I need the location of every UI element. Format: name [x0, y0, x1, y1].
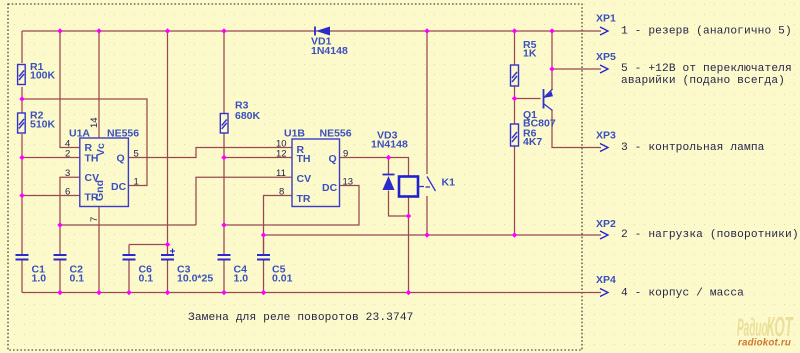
- relay K1 contact: [419, 177, 436, 192]
- watermark radiokot: [737, 310, 794, 348]
- svg-text:0.01: 0.01: [272, 273, 293, 285]
- svg-text:NE556: NE556: [320, 128, 352, 140]
- wire C2 lower: [59, 225, 61, 254]
- capacitor C5: [257, 255, 270, 260]
- pin numbers U1B: [276, 139, 353, 198]
- svg-text:6: 6: [65, 187, 70, 198]
- wire ground bus XP4: [22, 292, 601, 294]
- wire U1B TR stub: [264, 196, 293, 255]
- svg-text:7: 7: [89, 217, 100, 222]
- svg-text:Q: Q: [117, 153, 125, 165]
- IC U1A box: [80, 138, 129, 207]
- capacitor C6: [123, 255, 136, 260]
- svg-text:1N4148: 1N4148: [311, 45, 348, 57]
- wire R5 drop: [514, 31, 516, 65]
- svg-text:Vc: Vc: [95, 143, 107, 156]
- svg-text:CV: CV: [297, 173, 312, 185]
- svg-text:K1: K1: [442, 177, 456, 189]
- svg-text:1 - резерв (аналогично 5): 1 - резерв (аналогично 5): [621, 25, 792, 37]
- svg-text:DC: DC: [322, 182, 338, 194]
- svg-text:5: 5: [134, 149, 139, 160]
- capacitor C4: [218, 255, 231, 260]
- wire pin7 ground drop: [98, 207, 100, 293]
- relay K1 coil: [399, 177, 418, 197]
- svg-text:XP1: XP1: [596, 13, 616, 25]
- svg-text:9: 9: [343, 149, 348, 160]
- wire VD3 top: [388, 158, 390, 175]
- wire U1B Q to relay: [340, 158, 409, 177]
- connector arrows XP1 XP5 XP3 XP2 XP4: [600, 27, 608, 297]
- svg-text:U1A: U1A: [69, 128, 90, 140]
- svg-text:U1B: U1B: [284, 128, 305, 140]
- diode VD1: [315, 27, 330, 36]
- diode VD3: [383, 175, 395, 191]
- wire base link: [515, 98, 541, 100]
- svg-text:8: 8: [279, 187, 284, 198]
- svg-text:1.0: 1.0: [234, 273, 249, 285]
- capacitor C2: [54, 255, 67, 260]
- wire pin6 TR stub: [22, 195, 80, 197]
- svg-text:14: 14: [89, 117, 100, 128]
- svg-text:4K7: 4K7: [523, 136, 542, 148]
- wire collector to XP3: [552, 111, 601, 148]
- capacitor C3 polarized: [161, 255, 174, 260]
- svg-text:1.0: 1.0: [32, 273, 47, 285]
- wire relay coil to ground: [408, 197, 410, 293]
- wire U1B DC pin13 loop: [224, 186, 359, 226]
- svg-text:510K: 510K: [30, 119, 56, 131]
- svg-text:Q: Q: [329, 153, 337, 165]
- wire XP5 out: [552, 68, 601, 70]
- svg-text:100K: 100K: [30, 70, 56, 82]
- svg-text:Gnd: Gnd: [94, 180, 106, 201]
- capacitor C1: [16, 255, 29, 260]
- wire left column R1 R2 TH TR C1: [21, 31, 23, 63]
- wire R6 to load line: [514, 146, 516, 235]
- wire contact lower to load: [426, 196, 428, 235]
- dashed frame: [8, 4, 582, 350]
- svg-text:TH: TH: [297, 153, 311, 165]
- IC pin names U1A: [85, 142, 127, 204]
- wire emitter column XP5: [551, 31, 553, 89]
- connector description texts: [621, 25, 799, 299]
- resistor R5: [511, 65, 519, 86]
- transistor Q1 BC807: [544, 89, 554, 111]
- labels resistors: [30, 13, 616, 287]
- svg-text:680K: 680K: [235, 110, 261, 122]
- wire pin3 CV stub: [60, 177, 80, 225]
- svg-text:2 - нагрузка (поворотники): 2 - нагрузка (поворотники): [621, 229, 799, 241]
- svg-text:Замена для реле поворотов 23.3: Замена для реле поворотов 23.3747: [188, 312, 414, 324]
- svg-text:4 - корпус / масса: 4 - корпус / масса: [621, 288, 744, 300]
- IC U1B box: [292, 139, 340, 207]
- wire C6 branch: [129, 244, 168, 246]
- polarity mark C3: [170, 249, 175, 254]
- svg-text:NE556: NE556: [107, 128, 139, 140]
- svg-text:3: 3: [65, 168, 70, 179]
- wire R3 drop: [223, 31, 225, 114]
- svg-text:13: 13: [343, 177, 354, 188]
- svg-text:1N4148: 1N4148: [371, 139, 408, 151]
- svg-text:10.0*25: 10.0*25: [177, 273, 213, 285]
- wire R1/R2 node to DC pin1: [22, 99, 147, 186]
- svg-text:1: 1: [134, 177, 139, 188]
- wire contact upper from bus: [426, 31, 428, 174]
- wire U1B TH stub: [224, 157, 292, 159]
- svg-text:XP3: XP3: [596, 130, 616, 142]
- wire XP2 load line: [264, 234, 602, 236]
- wire VD3 bottom loop: [389, 191, 409, 217]
- svg-text:DC: DC: [111, 181, 127, 193]
- svg-text:аварийки (подано всегда): аварийки (подано всегда): [621, 75, 785, 87]
- svg-text:0.1: 0.1: [70, 273, 85, 285]
- pin numbers U1A: [65, 117, 139, 222]
- wire U1B CV stub: [196, 177, 292, 225]
- wire U1A Q to U1B R: [128, 148, 292, 158]
- svg-text:12: 12: [276, 149, 287, 160]
- wire pin14 Vcc drop: [98, 31, 100, 138]
- wire C5 lower: [263, 235, 265, 254]
- svg-text:TR: TR: [297, 193, 311, 205]
- svg-text:XP5: XP5: [596, 51, 616, 63]
- resistor R2: [18, 113, 26, 133]
- wire pin2 TH stub: [22, 157, 80, 159]
- svg-text:2: 2: [65, 149, 70, 160]
- wire pin4 reset drop: [60, 31, 80, 148]
- resistor R1: [18, 65, 26, 85]
- IC pin names U1B: [297, 144, 338, 205]
- svg-text:radiokot.ru: radiokot.ru: [738, 337, 791, 348]
- wire CV bus: [60, 224, 196, 226]
- wire +12V top bus: [22, 30, 601, 32]
- svg-text:BC807: BC807: [523, 118, 556, 130]
- svg-text:XP2: XP2: [596, 218, 616, 230]
- svg-text:3 - контрольная лампа: 3 - контрольная лампа: [621, 142, 765, 154]
- svg-text:5 - +12В от переключателя: 5 - +12В от переключателя: [621, 63, 792, 75]
- svg-text:0.1: 0.1: [139, 273, 154, 285]
- svg-text:11: 11: [276, 168, 286, 179]
- resistor R3: [220, 114, 228, 134]
- svg-text:XP4: XP4: [596, 274, 616, 286]
- svg-text:1K: 1K: [523, 48, 537, 60]
- resistor R6: [511, 124, 519, 146]
- wire +12V filter drop C3: [167, 31, 169, 254]
